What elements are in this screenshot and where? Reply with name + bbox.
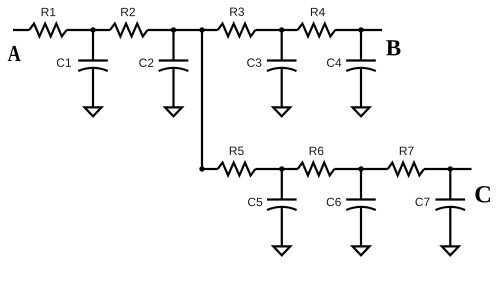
resistor R4: [298, 24, 336, 37]
ground: [273, 246, 290, 255]
value label C6: [327, 198, 341, 207]
value label C5: [248, 198, 262, 207]
resistor R2: [110, 24, 148, 37]
wire R5-R6: [255, 168, 297, 170]
capacitor C7: [436, 169, 466, 246]
wire R6-R7: [334, 168, 387, 170]
value label R4: [311, 8, 325, 16]
junction after R4: [358, 27, 363, 32]
resistor R3: [218, 24, 256, 37]
value label R6: [310, 147, 324, 156]
value label C3: [247, 58, 261, 67]
resistor R5: [218, 163, 256, 176]
capacitor C1: [78, 30, 108, 107]
wire R4-B: [335, 29, 382, 31]
value label C7: [415, 198, 429, 207]
junction after R2: [171, 27, 176, 32]
ground: [85, 107, 102, 116]
capacitor C3: [267, 30, 297, 107]
ground: [273, 107, 290, 116]
node A: [8, 46, 21, 61]
wire drop to row 2: [201, 30, 203, 169]
wire corner-R5: [202, 168, 218, 170]
value label C4: [327, 58, 341, 67]
resistor R6: [298, 163, 335, 176]
ground: [165, 107, 182, 116]
value label R7: [400, 147, 414, 155]
node B: [386, 40, 400, 55]
junction after R3: [279, 27, 284, 32]
ground: [353, 246, 370, 255]
value label R3: [230, 8, 244, 17]
wire R2-R3: [148, 29, 218, 31]
junction after R1: [90, 27, 95, 32]
junction after R6: [358, 166, 363, 171]
value label R5: [230, 147, 244, 155]
node C: [475, 186, 490, 202]
junction after R7: [448, 166, 453, 171]
value label R2: [121, 8, 135, 16]
resistor R1: [29, 24, 66, 37]
capacitor C5: [267, 169, 297, 246]
ground: [353, 107, 370, 116]
wire R3-R4: [255, 29, 297, 31]
value label R1: [42, 8, 56, 16]
wire R1-R2: [67, 29, 110, 31]
capacitor C2: [159, 30, 189, 107]
junction drop bottom: [199, 166, 204, 171]
ground: [442, 246, 459, 255]
value label C2: [139, 59, 153, 67]
value label C1: [57, 58, 71, 67]
junction drop top: [199, 27, 204, 32]
wire A lead: [13, 29, 29, 31]
capacitor C6: [346, 169, 376, 246]
junction after R5: [279, 166, 284, 171]
capacitor C4: [346, 30, 376, 107]
resistor R7: [388, 163, 424, 176]
wire R7-C: [424, 168, 472, 170]
